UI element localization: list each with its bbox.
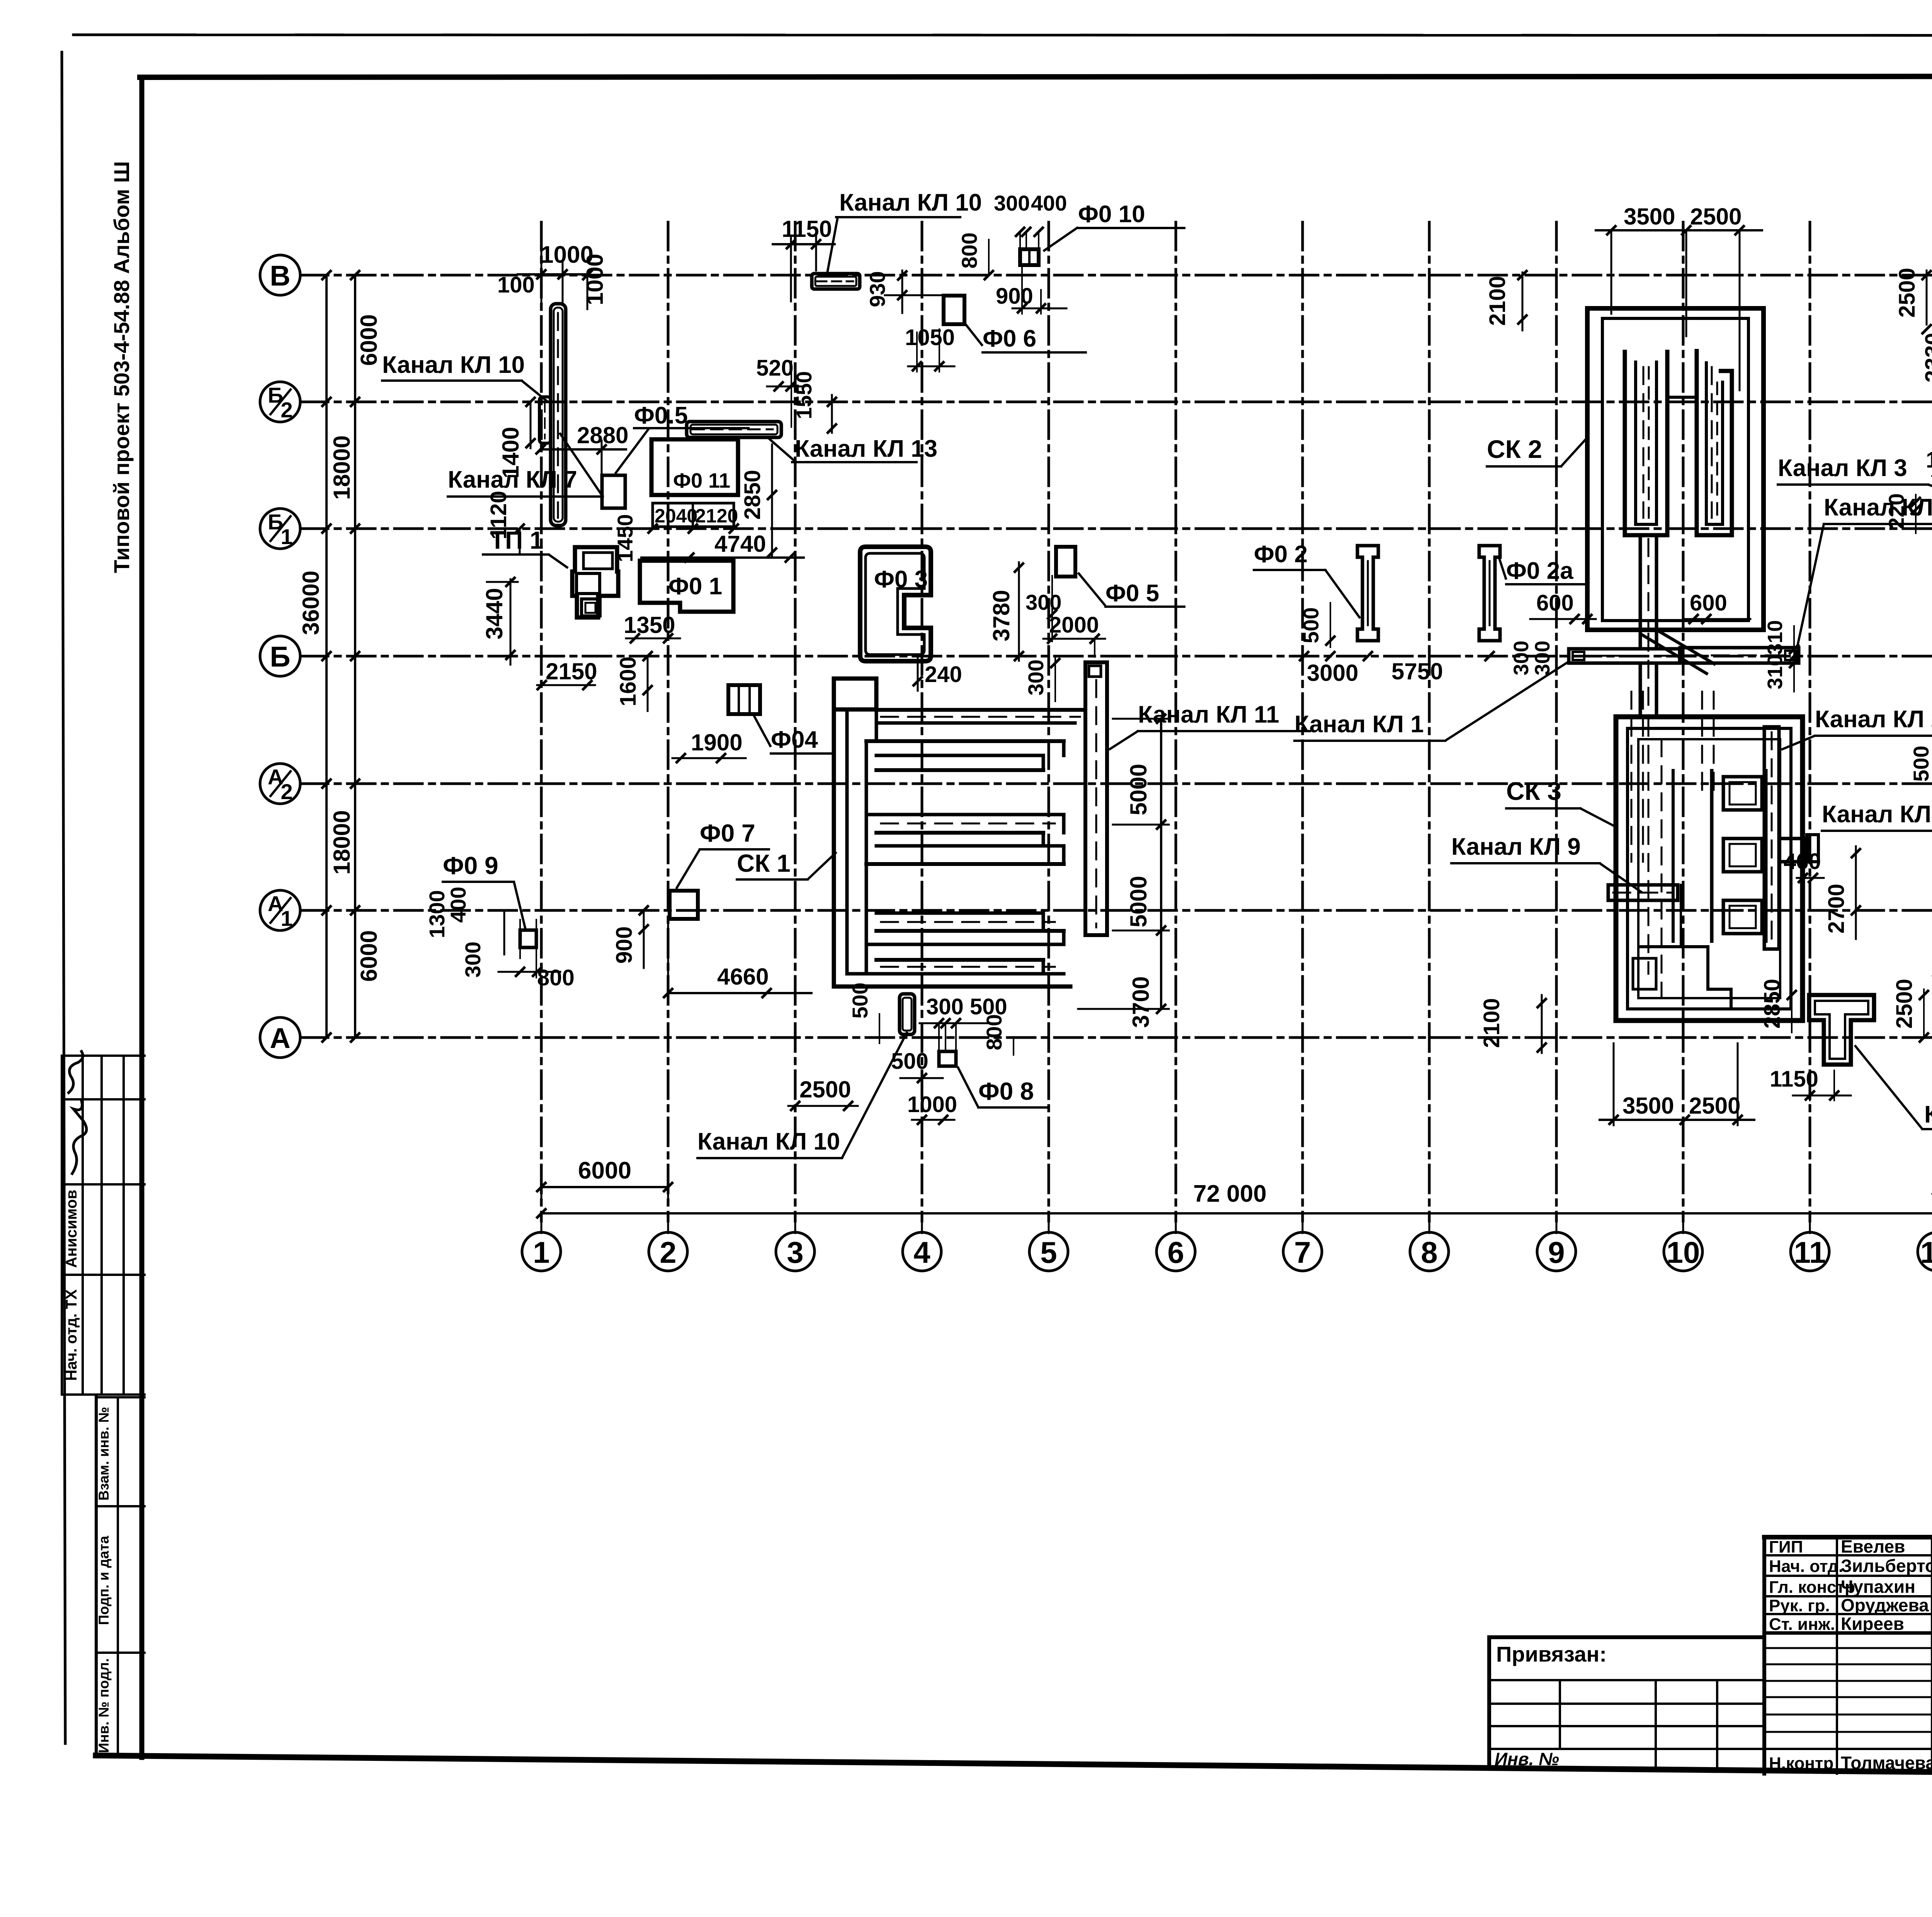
svg-text:Ф0 9: Ф0 9 [443,852,498,879]
svg-text:3000: 3000 [1307,660,1358,686]
channel KL10 top bar [812,274,860,289]
svg-text:Ст. инж.: Ст. инж. [1769,1615,1835,1634]
svg-text:600: 600 [1690,590,1727,616]
svg-text:800: 800 [537,965,575,990]
svg-text:1050: 1050 [905,325,955,350]
frame top thick [140,76,1932,77]
svg-text:2: 2 [281,398,293,422]
foundation Ф09 [520,930,536,947]
frame bottom thick [96,1755,1932,1778]
svg-text:6000: 6000 [356,930,382,981]
foundation Ф08 [939,1051,956,1066]
svg-text:1600: 1600 [616,657,641,706]
svg-text:300: 300 [1024,660,1048,696]
svg-text:800: 800 [982,1014,1006,1050]
svg-text:300: 300 [1510,641,1533,675]
channel KL7 vertical strip [551,304,566,526]
row axis circles [260,255,300,295]
svg-text:5: 5 [1040,1235,1057,1269]
svg-text:Канал КЛ 11: Канал КЛ 11 [1138,701,1279,728]
svg-text:2330: 2330 [1921,333,1932,383]
svg-text:3440: 3440 [481,588,507,640]
svg-text:600: 600 [1536,590,1574,616]
svg-text:300: 300 [1531,641,1554,675]
bottom left 6000 dimension [541,1186,668,1188]
svg-text:1300: 1300 [425,890,449,938]
svg-text:3700: 3700 [1128,976,1154,1028]
foundation Ф02а bone column [1479,546,1500,641]
svg-text:Типовой проект 503-4-54.88: Типовой проект 503-4-54.88 Альбом Ш [109,161,134,573]
svg-text:18000: 18000 [329,810,355,875]
svg-text:400: 400 [446,887,470,923]
row grid lines [300,274,1932,277]
svg-text:6000: 6000 [356,314,382,366]
svg-text:Киреев: Киреев [1841,1614,1904,1634]
svg-text:Канал КЛ 10: Канал КЛ 10 [697,1128,840,1155]
svg-text:500: 500 [1299,607,1323,643]
svg-text:Ф0 3: Ф0 3 [874,566,928,593]
transformer TP1 [572,547,618,617]
svg-text:2: 2 [660,1235,676,1269]
svg-text:310: 310 [1764,655,1787,689]
svg-text:1000: 1000 [582,254,608,305]
svg-text:900: 900 [612,926,637,964]
svg-text:800: 800 [957,233,981,269]
svg-text:8: 8 [1421,1235,1437,1269]
svg-text:3500: 3500 [1624,204,1675,230]
svg-text:900: 900 [996,284,1033,309]
svg-text:72 000: 72 000 [1193,1180,1267,1207]
outer thin border top [73,35,1932,36]
svg-text:Толмачева: Толмачева [1841,1753,1932,1773]
svg-text:Канал КЛ 10: Канал КЛ 10 [382,352,525,378]
structure CK1 comb [834,679,876,709]
svg-text:3500: 3500 [1622,1093,1674,1119]
svg-text:1: 1 [281,524,293,549]
svg-text:36000: 36000 [298,571,324,635]
title block signature table [1764,1535,1932,1539]
svg-text:5000: 5000 [1126,764,1151,815]
svg-text:Привязан:: Привязан: [1496,1642,1607,1666]
svg-text:ТП 1: ТП 1 [490,526,543,554]
svg-text:Ф04: Ф04 [771,726,818,753]
foundation Ф011 box [651,439,738,495]
channel KL2 strip [1764,727,1779,949]
svg-text:100: 100 [497,272,535,298]
svg-text:2850: 2850 [740,470,765,520]
svg-text:310: 310 [1764,620,1787,655]
svg-text:В: В [270,260,290,292]
svg-text:Ф0 2: Ф0 2 [1254,541,1308,568]
svg-text:5000: 5000 [1126,876,1151,927]
svg-text:2500: 2500 [1895,268,1920,318]
svg-text:2100: 2100 [1479,998,1504,1048]
column axis circles [522,1232,561,1271]
svg-text:18000: 18000 [329,435,355,500]
svg-text:3: 3 [787,1235,803,1269]
channel KL1 bar [1569,649,1680,663]
svg-text:Ф0 2а: Ф0 2а [1506,558,1573,584]
structure CK2 [1587,308,1764,630]
svg-text:СК 3: СК 3 [1506,777,1561,805]
dims 2040 2120 [653,503,734,527]
svg-text:СК 1: СК 1 [737,849,791,877]
outer thin border left [62,52,65,1744]
channel KL10 upper-left stub [539,397,551,443]
svg-text:9: 9 [1548,1235,1565,1269]
foundation Ф01 box [640,561,733,612]
svg-text:10: 10 [1667,1235,1700,1269]
central channel from CK2 down [1639,535,1642,649]
svg-text:7: 7 [1294,1235,1311,1269]
svg-text:1150: 1150 [1770,1067,1818,1092]
svg-text:2700: 2700 [1824,884,1849,934]
svg-text:1550: 1550 [792,371,816,419]
svg-text:Ф0 11: Ф0 11 [673,469,730,492]
channel KL11 vertical [1083,662,1087,935]
channel KL13 bar [687,422,781,437]
svg-text:1900: 1900 [691,730,742,755]
svg-text:1400: 1400 [498,427,524,478]
svg-text:Ф0 5: Ф0 5 [1105,580,1159,607]
svg-text:Подп. и дата: Подп. и дата [96,1536,112,1625]
CK1 right dims 5000 5000 3700 [1160,719,1162,1009]
svg-text:500: 500 [848,983,872,1019]
svg-text:1000: 1000 [907,1092,957,1117]
svg-text:Канал КЛ 3: Канал КЛ 3 [1778,455,1907,481]
left dimension chain lines [325,275,328,1038]
svg-text:220: 220 [1884,493,1908,529]
svg-text:240: 240 [925,662,962,687]
svg-text:Канал КЛ 4: Канал КЛ 4 [1822,801,1932,828]
svg-text:2: 2 [281,779,293,804]
foundation Ф03 [860,547,931,661]
svg-text:А: А [270,1022,290,1054]
svg-text:6: 6 [1167,1235,1184,1269]
svg-text:3780: 3780 [988,590,1014,641]
svg-text:460: 460 [1784,849,1821,874]
svg-text:Канал КЛ 2: Канал КЛ 2 [1815,706,1932,733]
svg-text:6000: 6000 [578,1157,631,1184]
signature scribbles sidebar [71,1099,87,1175]
privyazan sub-table [1489,1679,1764,1681]
svg-text:Инв. №: Инв. № [1495,1749,1559,1769]
channel KL10 bottom stub [900,994,915,1034]
svg-text:Инв. № подл.: Инв. № подл. [96,1658,112,1753]
svg-text:400: 400 [1031,191,1067,215]
svg-text:СК 2: СК 2 [1487,435,1542,463]
svg-text:2120: 2120 [695,505,738,527]
svg-text:Канал КЛ6: Канал КЛ6 [1924,1101,1932,1128]
svg-text:Анисимов: Анисимов [63,1190,80,1268]
svg-text:2500: 2500 [799,1077,851,1102]
svg-text:1: 1 [281,906,293,930]
svg-text:Нач. отд.: Нач. отд. [1769,1557,1843,1576]
sidebar upper table [62,1055,145,1057]
svg-text:1: 1 [533,1235,549,1269]
svg-text:4660: 4660 [717,964,769,990]
svg-text:2100: 2100 [1485,276,1510,326]
svg-text:2150: 2150 [546,658,597,684]
svg-text:2500: 2500 [1892,979,1917,1029]
svg-text:2880: 2880 [577,422,628,448]
svg-text:520: 520 [756,356,794,381]
foundation Ф02 bone column [1357,546,1378,641]
svg-text:Канал КЛ 9: Канал КЛ 9 [1451,833,1581,860]
svg-text:4: 4 [913,1235,930,1269]
foundation Ф04 [728,685,760,714]
channel KL6 corner [1809,995,1874,1065]
svg-text:1150: 1150 [782,216,832,242]
svg-text:Ф0 8: Ф0 8 [978,1077,1034,1105]
svg-text:Взам. инв. №: Взам. инв. № [96,1407,112,1501]
svg-text:2500: 2500 [1690,204,1742,230]
svg-text:180: 180 [1926,447,1932,473]
svg-text:Ф0 10: Ф0 10 [1078,201,1145,228]
channel KL9 bar inside CK3 [1608,885,1678,900]
svg-text:Зильбертов: Зильбертов [1841,1556,1932,1576]
svg-text:930: 930 [865,271,889,307]
svg-text:Канал КЛ 10: Канал КЛ 10 [839,189,982,216]
column grid lines 1-13 [540,222,543,1221]
svg-text:Б: Б [270,641,290,673]
foundation Ф0.5 rect [602,475,625,508]
svg-text:2500: 2500 [1689,1093,1740,1119]
svg-text:5750: 5750 [1391,658,1443,684]
svg-text:Рук. гр.: Рук. гр. [1769,1596,1830,1615]
svg-text:11: 11 [1794,1235,1826,1269]
bottom 72000 dimension [541,1212,1932,1214]
svg-text:Канал КЛ 13: Канал КЛ 13 [795,435,937,462]
svg-text:12: 12 [1920,1235,1932,1269]
privyazan block [1489,1635,1764,1639]
svg-text:Ф0 1: Ф0 1 [668,573,722,600]
svg-text:Оруджева: Оруджева [1841,1595,1929,1615]
svg-text:Ф0.5: Ф0.5 [634,402,688,429]
frame left thick [139,77,145,1757]
svg-text:4740: 4740 [714,531,766,557]
channel KL5 bar [1680,648,1799,663]
svg-text:300: 300 [994,191,1030,215]
sidebar lower table [95,1397,98,1756]
svg-text:Чупахин: Чупахин [1841,1577,1915,1597]
foundation Ф06 [944,296,964,324]
diagonal connector [1656,630,1716,665]
svg-text:500: 500 [1909,746,1932,782]
svg-text:Н.контр: Н.контр [1769,1754,1833,1773]
foundation Ф07 [670,891,698,919]
svg-text:Канал КЛ 1: Канал КЛ 1 [1294,711,1424,738]
svg-text:ГИП: ГИП [1769,1538,1803,1556]
svg-text:2040: 2040 [655,505,697,527]
foundation Ф05 [1056,547,1075,577]
svg-text:Нач. отд. ТХ: Нач. отд. ТХ [63,1289,80,1381]
svg-text:Евелев: Евелев [1841,1536,1905,1556]
svg-text:2850: 2850 [1760,979,1785,1029]
svg-text:Ф0 6: Ф0 6 [983,325,1036,352]
svg-text:1350: 1350 [624,612,675,638]
svg-text:Ф0 7: Ф0 7 [700,819,755,847]
structure CK3 [1616,717,1803,1021]
svg-text:300: 300 [461,942,485,978]
foundation Ф010 [1020,249,1039,265]
